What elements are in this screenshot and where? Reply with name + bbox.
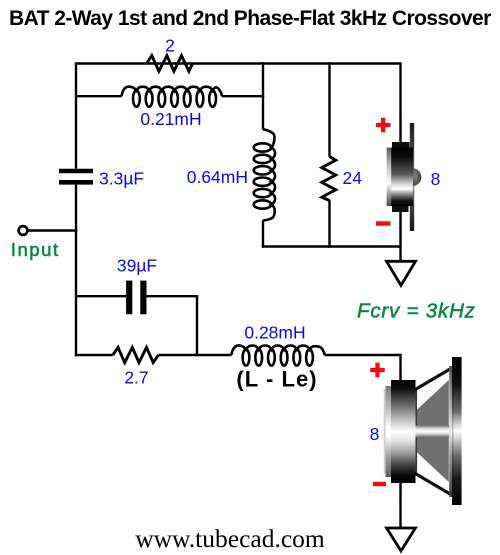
svg-text:8: 8 xyxy=(370,424,380,444)
wire: tweeter section left vertical xyxy=(262,62,264,247)
svg-text:2.7: 2.7 xyxy=(124,368,148,388)
inductor L 0.28mH xyxy=(231,345,324,355)
wire: input lead xyxy=(27,229,77,231)
woofer rim xyxy=(452,357,462,505)
svg-text:2: 2 xyxy=(165,36,175,56)
input terminal xyxy=(19,226,28,235)
wire: 39uF capacitor branch xyxy=(76,295,198,297)
svg-text:24: 24 xyxy=(343,168,363,188)
svg-text:8: 8 xyxy=(431,169,441,189)
woofer mid band xyxy=(415,425,452,437)
tweeter body xyxy=(391,148,413,207)
wire: tweeter section bottom rail xyxy=(262,247,401,262)
capacitor C 39uF xyxy=(129,281,143,315)
resistor R 2.7 xyxy=(113,347,159,362)
woofer inner rim strip xyxy=(449,366,452,497)
woofer front plate xyxy=(386,386,392,477)
svg-text:3.3µF: 3.3µF xyxy=(99,169,144,189)
label + (tweeter) xyxy=(376,118,391,133)
woofer front plate thin xyxy=(384,389,386,474)
label + (woofer) xyxy=(370,363,385,378)
svg-text:Input: Input xyxy=(11,239,60,260)
resistor R 24 (vertical) xyxy=(322,157,336,201)
tweeter top nub xyxy=(392,142,410,149)
resistor R 2 (top) xyxy=(147,56,193,72)
svg-text:Fcrv = 3kHz: Fcrv = 3kHz xyxy=(357,300,476,323)
tweeter dome xyxy=(413,168,422,186)
svg-text:(L - Le): (L - Le) xyxy=(236,367,317,392)
capacitor C 3.3uF xyxy=(59,171,93,182)
woofer bottom strut xyxy=(414,473,453,496)
tweeter bottom nub xyxy=(392,204,409,213)
inductor L 0.64mH (vertical) xyxy=(263,129,275,220)
label - (tweeter) xyxy=(376,221,391,225)
label - (woofer) xyxy=(373,482,386,486)
svg-text:39µF: 39µF xyxy=(117,256,157,276)
wire: tweeter feed vertical xyxy=(399,62,401,146)
wire: woofer feed vertical xyxy=(399,354,401,385)
wire: top horizontal rail xyxy=(75,62,401,356)
inductor L 0.21mH xyxy=(121,87,222,97)
woofer top strut xyxy=(414,367,453,390)
wire: woofer branch horizontal xyxy=(75,354,401,356)
svg-text:0.28mH: 0.28mH xyxy=(244,323,305,343)
svg-text:0.64mH: 0.64mH xyxy=(187,167,248,187)
svg-text:www.tubecad.com: www.tubecad.com xyxy=(135,524,325,553)
svg-text:0.21mH: 0.21mH xyxy=(140,109,201,129)
woofer magnet body xyxy=(391,380,416,483)
wire: inductor branch horizontal xyxy=(76,95,264,97)
wire: tweeter bottom vertical xyxy=(399,206,401,248)
ground (tweeter) xyxy=(387,261,416,285)
ground (woofer) xyxy=(387,528,416,551)
tweeter faceplate bar xyxy=(410,123,414,231)
woofer cone (dark) xyxy=(416,380,449,482)
wire: woofer ground stub xyxy=(399,478,401,529)
svg-text:BAT 2-Way 1st and 2nd Phase-Fl: BAT 2-Way 1st and 2nd Phase-Flat 3kHz Cr… xyxy=(9,7,491,30)
tweeter front strip xyxy=(387,148,392,207)
woofer basket edge (left) xyxy=(415,389,418,474)
wire: 24-ohm branch vertical xyxy=(328,62,330,247)
wire: RC loop right vertical xyxy=(196,295,198,356)
